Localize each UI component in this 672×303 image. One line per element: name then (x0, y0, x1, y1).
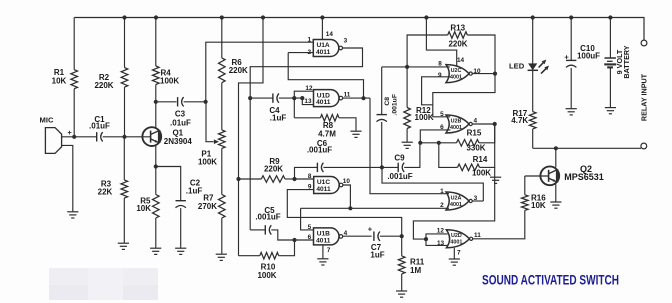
wire: Q2 emitter (555, 184, 557, 201)
op-gate U2B 4001 (446, 115, 469, 133)
node: R9 left junction (236, 177, 240, 181)
svg-text:4001: 4001 (450, 125, 462, 131)
node: U1C output junction (348, 206, 352, 210)
svg-text:10K: 10K (531, 201, 546, 210)
resistor R9 (239, 178, 262, 180)
wire: U2B out down to U2D inputs (413, 124, 494, 239)
svg-text:.001uF: .001uF (387, 172, 412, 181)
svg-text:.001uF: .001uF (392, 94, 399, 116)
ground (R7) (216, 253, 227, 255)
svg-text:10K: 10K (52, 76, 67, 85)
node: pin6/C9 junction (418, 141, 422, 145)
svg-text:100K: 100K (472, 169, 491, 178)
wire: U2B output 4 (472, 123, 494, 125)
svg-text:4001: 4001 (450, 74, 462, 80)
node: base junction (122, 135, 126, 139)
ground (R3) (118, 242, 129, 244)
svg-text:5: 5 (308, 224, 312, 231)
wire: wiper arm of P1 (206, 102, 214, 142)
op-gate U2C 4001 (446, 65, 469, 83)
capacitor C7 (373, 232, 375, 241)
svg-text:10K: 10K (136, 204, 151, 213)
resistor R12 100K (406, 67, 408, 108)
svg-text:100K: 100K (198, 157, 217, 166)
svg-text:14: 14 (326, 31, 334, 38)
wire: P1 to R7 (221, 148, 223, 194)
svg-text:U2D: U2D (451, 233, 462, 239)
resistor R1 (73, 18, 75, 70)
svg-text:12: 12 (305, 85, 313, 92)
ground (battery) (605, 107, 616, 109)
svg-text:.01uF: .01uF (89, 122, 110, 131)
svg-text:MPS6531: MPS6531 (564, 172, 604, 182)
svg-text:9: 9 (438, 72, 442, 79)
svg-text:C9: C9 (394, 154, 405, 163)
wire: Q1 emitter (155, 145, 157, 167)
wire: C6 tap (295, 167, 318, 179)
wire: C8 top to U2C pin 8 node (382, 66, 407, 68)
svg-text:U2C: U2C (451, 68, 462, 74)
wire: U2C pin 14 to rail (426, 18, 456, 66)
svg-text:100K: 100K (257, 271, 276, 280)
svg-text:4011: 4011 (316, 186, 331, 193)
svg-text:MIC: MIC (40, 116, 54, 125)
wire: U1A pin 2 stub (288, 52, 313, 54)
wire: U2C output 10 (472, 73, 495, 75)
ground (R5) (150, 247, 161, 249)
svg-text:.001uF: .001uF (255, 213, 280, 222)
svg-text:10: 10 (343, 178, 351, 185)
svg-text:+: + (67, 128, 72, 137)
wire: U1C out branch to U1B pin 5 (301, 208, 314, 230)
capacitor C3 (156, 101, 177, 103)
svg-text:8: 8 (308, 173, 312, 180)
wire: U2A output feedback to C9 node (382, 167, 483, 201)
wire: U2B pin 6 input (420, 130, 450, 143)
capacitor C2 (156, 167, 181, 201)
svg-text:12: 12 (437, 227, 445, 234)
node: C6-C8-C9 junction (380, 165, 384, 169)
ground (mic) (67, 211, 78, 213)
svg-text:220K: 220K (229, 66, 248, 75)
node: Q1 collector / C3 (154, 100, 158, 104)
svg-text:1: 1 (440, 188, 444, 195)
resistor R2 (124, 18, 126, 68)
wire: U1C pin 8 stub (295, 178, 314, 180)
op-gate U1B 4011 (314, 228, 340, 245)
svg-text:R13: R13 (450, 24, 465, 33)
svg-text:4011: 4011 (316, 237, 331, 244)
resistor R8 4.7M (294, 117, 320, 119)
svg-text:4.7K: 4.7K (511, 116, 528, 125)
microphone MIC (45, 128, 61, 154)
svg-text:6: 6 (308, 234, 312, 241)
svg-text:2: 2 (440, 202, 444, 209)
svg-text:100K: 100K (415, 113, 434, 122)
svg-text:1: 1 (307, 36, 311, 43)
wire: R6 to P1 (221, 83, 223, 130)
wire: U2A output 3 (472, 200, 483, 202)
op-gate U1C 4011 (314, 177, 340, 194)
wire: U1C output 10 (343, 185, 350, 208)
resistor R17 4.7K (532, 71, 534, 112)
wire: Q2 collector (555, 148, 557, 167)
capacitor C1 (96, 132, 98, 141)
svg-text:5: 5 (440, 111, 444, 118)
resistor R11 1M (401, 236, 403, 256)
wire: V+ top rail (74, 18, 644, 41)
ground (R14) (490, 176, 501, 178)
svg-text:+: + (368, 225, 373, 234)
ground (R12) (402, 141, 413, 143)
wire: U1B pin 7 to ground (322, 245, 324, 259)
node: U1D input junctions (292, 96, 296, 100)
svg-text:4: 4 (474, 117, 478, 124)
svg-text:1uF: 1uF (370, 250, 384, 259)
svg-text:7: 7 (327, 247, 331, 254)
svg-text:U2B: U2B (451, 118, 462, 124)
op-gate U1D 4011 (314, 90, 340, 107)
transistor Q1 (142, 127, 161, 146)
wire: U1D pin 13 stub (302, 98, 313, 105)
svg-text:100uF: 100uF (577, 52, 600, 61)
svg-text:1M: 1M (410, 266, 421, 275)
svg-text:U2A: U2A (451, 195, 462, 201)
svg-text:220K: 220K (94, 81, 113, 90)
ground (R11) (396, 290, 407, 292)
svg-text:R15: R15 (467, 128, 482, 137)
wire: U1A pin 14 to rail (321, 18, 323, 40)
svg-text:14: 14 (457, 57, 465, 64)
svg-text:7: 7 (457, 250, 461, 257)
capacitor C10 100uF (570, 18, 572, 61)
wire: U2C out to U2B pin 5 (433, 74, 495, 117)
svg-text:.01uF: .01uF (170, 118, 191, 127)
resistor R16 10K (522, 195, 529, 211)
resistor R10 (239, 255, 260, 257)
node: R14 junction (437, 141, 441, 145)
node: U2D input junction (424, 237, 428, 241)
ground (C10) (566, 108, 577, 110)
wire: U1D pin 12 stub (294, 91, 313, 118)
svg-text:.1uF: .1uF (186, 186, 203, 195)
svg-text:RELAY INPUT: RELAY INPUT (639, 73, 648, 121)
svg-text:4011: 4011 (316, 99, 331, 106)
node: mic plus junction (72, 135, 76, 139)
ground (R8) (350, 130, 361, 132)
svg-text:C8: C8 (384, 97, 391, 106)
wire: U1D output to U2A pin 1 (370, 98, 449, 194)
wire: feedback node down to C5 (249, 98, 251, 230)
svg-text:4001: 4001 (450, 240, 462, 246)
svg-text:4011: 4011 (316, 49, 331, 56)
svg-text:13: 13 (437, 240, 445, 247)
resistor R4 (155, 18, 157, 67)
capacitor C4 (250, 97, 273, 99)
capacitor C8 (381, 67, 383, 115)
svg-text:.001uF: .001uF (307, 145, 332, 154)
node: U1B pin 6 junction (292, 238, 296, 242)
wire: U2C pin 8 input (407, 66, 450, 68)
resistor R13 220K (407, 35, 448, 67)
wire: U1C out to U2A pin 2 (301, 207, 449, 209)
node: C7 / R11 junction (400, 234, 404, 238)
wire: U1A output 3 feedback to C4 node (250, 48, 362, 98)
svg-text:3: 3 (344, 38, 348, 45)
potentiometer P1 (219, 130, 226, 149)
resistor R3 (123, 137, 125, 180)
wire: node to U1A pin 1 (206, 42, 313, 102)
wire: pull-up column from rail (239, 18, 264, 180)
node: U2C output junction (493, 72, 497, 76)
LED (532, 18, 534, 64)
svg-text:2N3904: 2N3904 (164, 137, 193, 146)
node: C4 / feedback junction (248, 96, 252, 100)
resistor R7 (219, 195, 226, 219)
wire: U1C pin 9 to C7 node (287, 190, 401, 237)
wire: U2D pin 12 stub (426, 234, 448, 239)
wire: U2D pin 7 to ground (453, 248, 455, 259)
wire: mic output to C1 (62, 136, 97, 138)
svg-text:+: + (564, 52, 569, 61)
node: collector to relay line (554, 146, 558, 150)
resistor R14 100K (439, 143, 458, 168)
wire: U1B output 4 (343, 235, 372, 237)
ground (U1B pin 7) (317, 258, 328, 260)
ground (Q2 emitter) (550, 201, 561, 203)
node: R13/R12/pin8 junction (405, 65, 409, 69)
wire: U2D pin 13 stub (426, 239, 448, 245)
faint watermark block (49, 268, 158, 285)
svg-text:.1uF: .1uF (270, 113, 287, 122)
wire: Q1 collector (155, 102, 157, 129)
wire: U1B pin 6 stub (295, 239, 314, 241)
node: U2B output junction (493, 122, 497, 126)
wire: R16 to Q2 base (525, 175, 549, 177)
wire: U2D output 11 to R16 (473, 210, 525, 238)
svg-text:220K: 220K (448, 40, 467, 49)
battery 9V (609, 18, 611, 59)
svg-text:330K: 330K (466, 144, 485, 153)
wire: relay bottom line (533, 147, 641, 149)
svg-text:270K: 270K (198, 202, 217, 211)
terminal: relay bottom (641, 143, 647, 149)
capacitor C5 (250, 229, 265, 231)
wire: C1 to Q1 base (103, 136, 151, 138)
svg-text:100K: 100K (160, 76, 179, 85)
node: U1D output junction (361, 96, 365, 100)
svg-text:220K: 220K (264, 164, 283, 173)
op-gate U1A 4011 (313, 40, 339, 57)
svg-text:R14: R14 (473, 155, 488, 164)
svg-text:8: 8 (438, 60, 442, 67)
transistor Q2 (540, 166, 559, 185)
svg-text:4001: 4001 (450, 202, 462, 208)
wire: pull-up column to R10 (238, 179, 240, 256)
LED arrows (539, 62, 545, 68)
wire: U2C pin 9 feedback elbow (422, 77, 451, 105)
svg-text:C3: C3 (175, 109, 186, 118)
node: rail junction dots (122, 15, 126, 19)
resistor R6 (221, 18, 223, 58)
svg-text:11: 11 (474, 232, 481, 239)
capacitor C9 (382, 166, 398, 168)
node: C3 to P1 wiper / U1A pin1 (204, 100, 208, 104)
wire: U1D output 11 (343, 97, 370, 99)
svg-text:LED: LED (509, 61, 525, 70)
svg-text:22K: 22K (98, 188, 113, 197)
op-gate U2A 4001 (446, 192, 469, 210)
resistor R15 330K (420, 142, 456, 144)
resistor R5 (155, 167, 157, 195)
capacitor C6 (316, 163, 318, 172)
wire: mic ground lead (62, 145, 73, 211)
node: Q1 emitter junction (154, 164, 158, 168)
svg-text:4.7M: 4.7M (318, 130, 336, 139)
terminal: relay top (641, 40, 647, 46)
svg-text:BATTERY: BATTERY (622, 45, 631, 78)
svg-text:SOUND ACTIVATED SWITCH: SOUND ACTIVATED SWITCH (482, 273, 619, 288)
ground (C2) (175, 247, 186, 249)
svg-text:13: 13 (304, 98, 312, 105)
ground (U2D pin 7) (449, 258, 460, 260)
wire: U1D output to U1A pin 2 (288, 53, 363, 99)
node: U1C pin 8 junction (292, 177, 296, 181)
op-gate U2D 4001 (446, 230, 469, 248)
